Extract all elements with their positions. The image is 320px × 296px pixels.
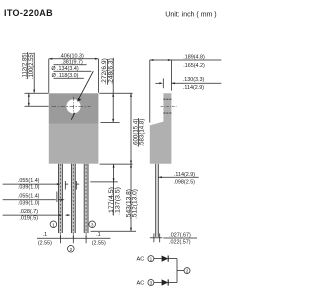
dimension .130(3.3)/.114(2.9) tab thickness — [155, 77, 221, 91]
pin 3 callout — [89, 221, 96, 228]
unit note — [165, 12, 216, 19]
svg-text:.248(6.3): .248(6.3) — [107, 58, 114, 85]
lead 1 — [58, 164, 62, 238]
lead 3 — [84, 164, 88, 238]
svg-text:.039(1.0): .039(1.0) — [18, 200, 40, 206]
svg-text:.130(3.3): .130(3.3) — [183, 77, 205, 83]
svg-text:2: 2 — [69, 247, 72, 253]
schematic: AC label bottom — [137, 281, 145, 287]
svg-text:3: 3 — [91, 222, 94, 228]
lead baseline — [37, 235, 110, 244]
dimension .272(6.9)/.248(6.3) tab height — [99, 58, 132, 123]
svg-text:.1: .1 — [96, 232, 101, 238]
title ITO-220AB — [4, 8, 53, 18]
wire node1 to D1 — [154, 258, 162, 260]
svg-text:.055(1.4): .055(1.4) — [18, 178, 40, 184]
side view hole hidden lines — [161, 99, 177, 113]
pitch label .1(2.55) left — [38, 232, 52, 246]
svg-text:ITO-220AB: ITO-220AB — [4, 8, 53, 18]
diode D2 — [162, 279, 169, 285]
svg-text:3: 3 — [150, 280, 153, 285]
side view profile — [150, 93, 172, 164]
svg-text:Unit: inch ( mm ): Unit: inch ( mm ) — [165, 12, 216, 19]
mounting hole — [66, 99, 80, 113]
svg-text:.165(4.2): .165(4.2) — [183, 63, 205, 69]
node 2 — [184, 268, 190, 274]
wire bus to node 2 — [177, 270, 184, 272]
front view tab — [49, 93, 99, 123]
dimension .055(1.4)/.039(1.0) row 2 — [3, 192, 65, 207]
front view body — [49, 124, 99, 164]
svg-text:.019(.5): .019(.5) — [19, 216, 38, 222]
svg-text:.027(.67): .027(.67) — [169, 232, 191, 238]
svg-text:(2.55): (2.55) — [38, 240, 52, 246]
svg-text:AC: AC — [137, 257, 145, 263]
pitch label .1(2.55) right — [92, 232, 106, 246]
hole centerlines — [52, 97, 91, 119]
side view lead — [156, 164, 159, 237]
node 1 — [148, 256, 154, 262]
dimension .189(4.8)/.165(4.2) body thickness — [150, 55, 222, 123]
svg-text:.100(2.55): .100(2.55) — [28, 53, 35, 80]
dimension .027(.67)/.022(.57) lead thickness — [150, 232, 197, 245]
svg-text:.114(2.9): .114(2.9) — [174, 172, 195, 178]
svg-text:1: 1 — [52, 222, 55, 228]
svg-text:.028(.7): .028(.7) — [19, 209, 38, 215]
svg-text:.583(14.8): .583(14.8) — [139, 119, 146, 147]
wire node3 to D2 — [154, 282, 162, 284]
dimension .177(4.5)/.137(3.5) wide lead section — [90, 164, 121, 215]
svg-text:.039(1.0): .039(1.0) — [18, 185, 40, 191]
svg-text:.055(1.4): .055(1.4) — [18, 194, 40, 200]
svg-text:2: 2 — [186, 269, 189, 274]
svg-text:(2.55): (2.55) — [92, 240, 106, 246]
dimension .055(1.4)/.039(1.0) row 1 — [3, 178, 80, 191]
dimension .600(15.4)/.583(14.8) body height — [130, 93, 146, 231]
svg-text:1: 1 — [150, 257, 153, 262]
dimension .543(13.8)/.512(13.0) lead length — [91, 164, 139, 231]
svg-text:.022(.57): .022(.57) — [169, 240, 191, 246]
dimension .114(2.9)/.098(2.5) lead offset — [158, 172, 198, 186]
pin 2 callout — [68, 246, 75, 253]
wire D2 to bus — [168, 282, 177, 284]
schematic: AC label top — [137, 257, 145, 263]
diode D1 — [162, 256, 169, 262]
dimension .112(2.85)/.100(2.55) hole position — [21, 52, 48, 106]
lead 2 — [71, 164, 75, 238]
pin 1 callout — [50, 221, 57, 228]
bus wire — [176, 259, 178, 283]
svg-text:.098(2.5): .098(2.5) — [173, 180, 195, 186]
svg-text:.137(3.5): .137(3.5) — [115, 187, 122, 215]
dimension .406(10.3)/.381(9.7) tab width — [49, 53, 99, 92]
svg-text:.512(13.0): .512(13.0) — [132, 189, 139, 219]
svg-text:AC: AC — [137, 281, 145, 287]
node 3 — [148, 280, 154, 286]
svg-text:.114(2.9): .114(2.9) — [183, 85, 204, 91]
dimension hole diameter — [51, 66, 93, 120]
dimension .028(.7)/.019(.5) row 3 — [3, 209, 70, 222]
svg-text:.1: .1 — [43, 232, 48, 238]
wire D1 to bus — [168, 258, 177, 260]
